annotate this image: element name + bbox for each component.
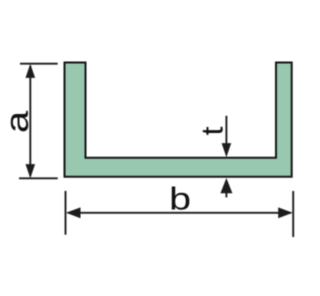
svg-text:t: t (195, 126, 229, 135)
svg-text:a: a (0, 110, 35, 133)
svg-text:b: b (169, 181, 191, 216)
